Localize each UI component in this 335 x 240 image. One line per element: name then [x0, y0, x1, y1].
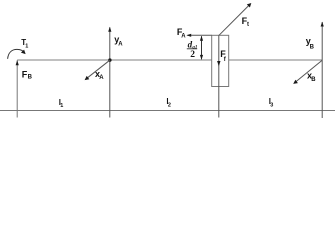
svg-text:B: B: [310, 44, 315, 50]
svg-text:t: t: [247, 22, 249, 28]
svg-text:B: B: [311, 77, 316, 83]
svg-text:2: 2: [168, 102, 171, 108]
svg-text:1: 1: [60, 103, 63, 109]
svg-text:2: 2: [190, 50, 195, 60]
svg-text:1: 1: [25, 44, 28, 50]
svg-text:A: A: [118, 41, 123, 47]
svg-text:A: A: [99, 75, 104, 81]
svg-text:B: B: [28, 75, 33, 81]
svg-text:A: A: [181, 33, 186, 39]
svg-text:3: 3: [270, 103, 273, 109]
